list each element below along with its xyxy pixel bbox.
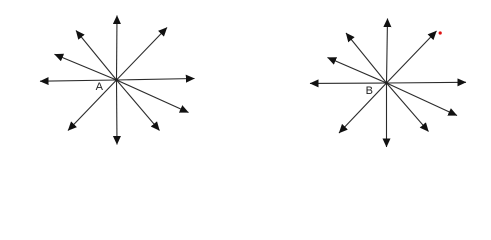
vector A down-right steep <box>117 80 160 131</box>
vector A up-right <box>117 28 168 81</box>
vector A up-left shallow <box>55 54 117 80</box>
vector B down-left <box>339 83 387 133</box>
vector A right <box>117 79 195 81</box>
vector A left <box>40 80 117 81</box>
svg-text:A: A <box>96 81 104 93</box>
vector B up-left shallow <box>328 58 387 84</box>
vector B up-left steep <box>346 33 387 83</box>
vector A up <box>116 16 119 81</box>
vector B down <box>386 83 388 147</box>
diagram: vector star at point B <box>310 19 466 148</box>
vector A down-right shallow <box>117 80 189 113</box>
vector B up-right <box>387 31 437 83</box>
vector A down <box>116 80 119 145</box>
vector B up <box>387 19 388 84</box>
junction point B <box>385 82 388 85</box>
diagram: vector star at point A <box>40 16 195 145</box>
vector B down-right shallow <box>387 83 458 116</box>
junction point A <box>115 79 118 82</box>
red dot marker near tip of B up-right vector <box>439 31 442 34</box>
svg-text:B: B <box>366 85 373 97</box>
vector A up-left steep <box>76 31 117 81</box>
vector B right <box>387 81 467 84</box>
vector B left <box>310 82 387 84</box>
vector A down-left <box>68 80 117 131</box>
vector B down-right steep <box>387 83 429 132</box>
